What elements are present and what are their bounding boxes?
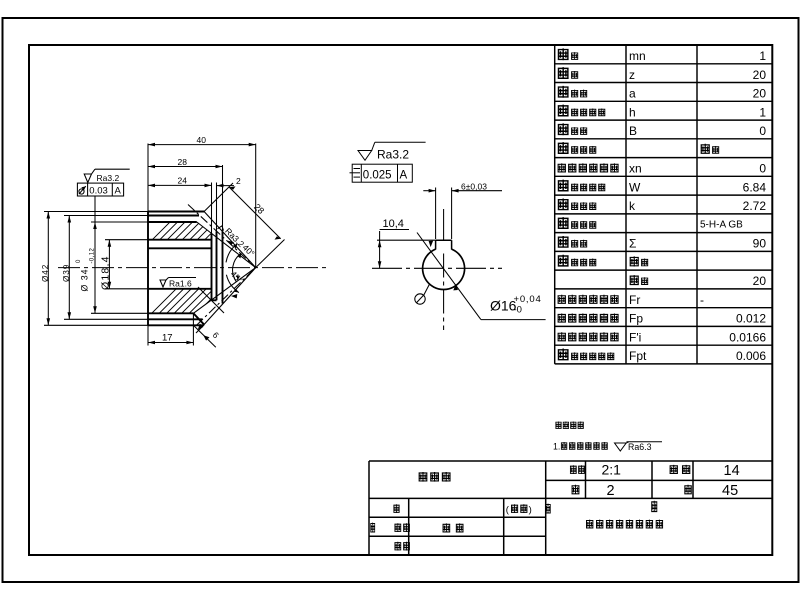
row 15 pitch accum Fp 0.012 label [558, 313, 566, 322]
row 5 helix angle B 0 label [558, 123, 569, 135]
row 16 radial composite F'i 0.0166 label [558, 332, 566, 341]
bore bottom line [148, 288, 212, 290]
svg-text:a: a [629, 87, 636, 101]
left section view [41, 135, 326, 347]
front face vertical 1 [211, 233, 213, 300]
svg-text:Ra1.6: Ra1.6 [169, 278, 192, 288]
technical requirements [553, 421, 662, 452]
row 2 teeth z 20 label [558, 67, 569, 79]
row 3 pressure angle a 20 label [558, 86, 569, 98]
dim 24 [148, 183, 217, 234]
dim 28 top [148, 165, 223, 232]
drawing no label [670, 465, 678, 474]
svg-text:2: 2 [607, 483, 615, 499]
gear outline bold edges [148, 212, 223, 326]
row 6 value straight teeth [701, 144, 710, 154]
bottom pitch end line [148, 318, 203, 320]
svg-text:0.012: 0.012 [736, 312, 766, 326]
stray hairline [198, 287, 224, 313]
char above school [651, 501, 657, 512]
row 7 profile shift xn 0 label [558, 163, 566, 172]
dim 17 [148, 313, 193, 345]
row 9 spanned teeth k 2.72 label [558, 198, 569, 210]
design label [393, 504, 399, 513]
dia 34 dim [91, 196, 148, 313]
roughness Ra6.3 symbol [615, 442, 663, 451]
row 8 base tangent W 6.84 label [558, 180, 569, 192]
svg-text:6±0,03: 6±0,03 [461, 182, 487, 192]
svg-text:6.84: 6.84 [743, 180, 767, 194]
svg-text:k: k [629, 199, 636, 213]
gear parameter table text [558, 48, 767, 363]
row 13 col2 teeth label [630, 275, 639, 285]
svg-text:): ) [529, 505, 532, 516]
svg-text:1: 1 [759, 105, 766, 119]
svg-text:mn: mn [629, 49, 646, 63]
top tip cone edge [204, 212, 256, 268]
svg-text:-0,12: -0,12 [90, 248, 96, 264]
svg-text:90: 90 [753, 237, 767, 251]
svg-text:Ra3.2: Ra3.2 [97, 173, 120, 183]
qty label [572, 485, 580, 495]
bore circle with keyway break [423, 249, 465, 289]
bottom tip cone edge [203, 268, 255, 326]
svg-text:17: 17 [162, 332, 173, 343]
svg-text:Fp: Fp [629, 312, 643, 326]
svg-text:A: A [400, 170, 408, 182]
svg-text:Ra6.3: Ra6.3 [628, 442, 652, 452]
char beside divider [545, 504, 550, 514]
svg-text:45: 45 [722, 483, 738, 499]
part name bevel gear [419, 472, 428, 482]
svg-text:Ø42: Ø42 [41, 264, 50, 282]
svg-text:0.025: 0.025 [363, 170, 392, 182]
title block [369, 461, 772, 555]
svg-text:h: h [629, 105, 636, 119]
svg-text:+0,04: +0,04 [514, 294, 542, 305]
row 1 module mn 1 label [558, 48, 569, 60]
svg-text:0.0166: 0.0166 [729, 330, 766, 344]
keyway width dim 6+-0.03 [423, 188, 502, 240]
svg-text:2.72: 2.72 [743, 199, 767, 213]
row 4 addendum coef h 1 label [558, 105, 569, 117]
dim 2 [217, 185, 235, 187]
scale label [570, 465, 577, 474]
row 6 helix direction label [558, 142, 569, 154]
top root cone edge [197, 222, 256, 268]
svg-text:Ø 34: Ø 34 [80, 268, 90, 291]
circle end view [350, 142, 546, 330]
bore dia leader d16 [417, 233, 546, 320]
drafter name [443, 523, 451, 532]
keyway walls [436, 240, 452, 249]
svg-text:5-H-A GB: 5-H-A GB [700, 219, 743, 230]
slant dim 28 [204, 183, 284, 268]
bottom back cone corner [193, 313, 204, 324]
gear parameter table grid [555, 45, 773, 364]
svg-text:-0: -0 [514, 305, 522, 316]
svg-text:Ra3.2: Ra3.2 [377, 148, 409, 162]
top hatch [140, 210, 242, 252]
row 17 pitch dev Fpt 0.006 label [558, 349, 569, 361]
svg-text:Σ: Σ [629, 237, 636, 251]
row 14 runout Fr label [558, 295, 566, 304]
row 10 accuracy grade label [558, 217, 569, 229]
svg-text:10,4: 10,4 [383, 218, 404, 230]
svg-text:2:1: 2:1 [602, 462, 622, 478]
svg-text:-: - [700, 293, 704, 307]
small arrows at cone face [228, 241, 235, 246]
small check symbol [218, 226, 224, 231]
svg-text:0: 0 [759, 124, 766, 138]
keyway depth dim 10.4 [377, 230, 436, 269]
svg-text:0: 0 [759, 162, 766, 176]
svg-text:Ø18,4: Ø18,4 [100, 255, 112, 290]
svg-text:2: 2 [236, 176, 241, 186]
svg-text:Fr: Fr [629, 293, 640, 307]
datum circle symbol [415, 284, 430, 304]
inner border frame [29, 45, 772, 555]
svg-text:F'i: F'i [629, 330, 641, 344]
row 12 col2 drawing no label [630, 256, 639, 266]
svg-text:Fpt: Fpt [629, 349, 647, 363]
roughness Ra3.2 mid [358, 142, 426, 160]
svg-text:1.: 1. [553, 441, 560, 451]
check row [394, 542, 401, 551]
vertical centerline [443, 209, 445, 241]
top pitch cone dash line [188, 205, 256, 268]
bore top line [148, 247, 212, 249]
tech req heading [555, 421, 561, 428]
top pitch end line [148, 215, 199, 217]
bottom root cone edge [193, 268, 255, 314]
parallelism tolerance frame [350, 164, 413, 182]
dia 42 dim [44, 212, 148, 326]
draw row [370, 523, 375, 533]
bevel cone edge lines to apex [193, 212, 255, 326]
dim 6 bottom [193, 325, 216, 348]
left face [147, 212, 149, 326]
bore roughness Ra1.6 [160, 278, 196, 288]
keyway top line [148, 239, 212, 241]
top tip line [148, 211, 204, 213]
angle arcs at apex [226, 244, 241, 293]
bottom pitch cone dash line [197, 268, 256, 326]
svg-text:z: z [629, 68, 635, 82]
svg-text:1: 1 [759, 49, 766, 63]
front face vertical 3 [222, 232, 224, 304]
svg-text:xn: xn [629, 162, 642, 176]
svg-text:20: 20 [753, 68, 767, 82]
svg-text:B: B [629, 124, 637, 138]
bottom tip line [148, 324, 203, 326]
dim 40 [148, 144, 256, 268]
material label [684, 485, 691, 495]
front face vertical 2 [216, 231, 218, 300]
row 11 shaft angle sigma 90 label [558, 236, 569, 248]
dia 18.4 dim [105, 240, 148, 289]
svg-text:14: 14 [724, 463, 740, 479]
svg-text:24: 24 [178, 175, 188, 185]
row 12 mating gear label [558, 255, 569, 267]
roughness Ra3.2 top left [84, 169, 130, 182]
svg-text:W: W [629, 180, 641, 194]
bottom hub line d34 [148, 312, 193, 314]
svg-text:28: 28 [178, 157, 188, 167]
runout tolerance frame [77, 183, 123, 196]
svg-text:0.03: 0.03 [89, 186, 108, 197]
dia 39 dim [64, 216, 148, 320]
school name [586, 520, 593, 529]
horizontal centerline [372, 267, 502, 269]
arc arrowheads [233, 244, 238, 249]
svg-text:Ø39: Ø39 [62, 264, 71, 282]
centerline axis [58, 267, 326, 269]
svg-text:A: A [115, 186, 122, 197]
front face bottom tie [212, 299, 217, 301]
svg-text:0.006: 0.006 [736, 349, 766, 363]
svg-text:20: 20 [753, 87, 767, 101]
title block grid [369, 461, 772, 555]
top hub line d34 [148, 221, 197, 223]
bottom hatch [140, 281, 252, 325]
svg-text:40: 40 [197, 135, 207, 145]
svg-text:20: 20 [753, 274, 767, 288]
